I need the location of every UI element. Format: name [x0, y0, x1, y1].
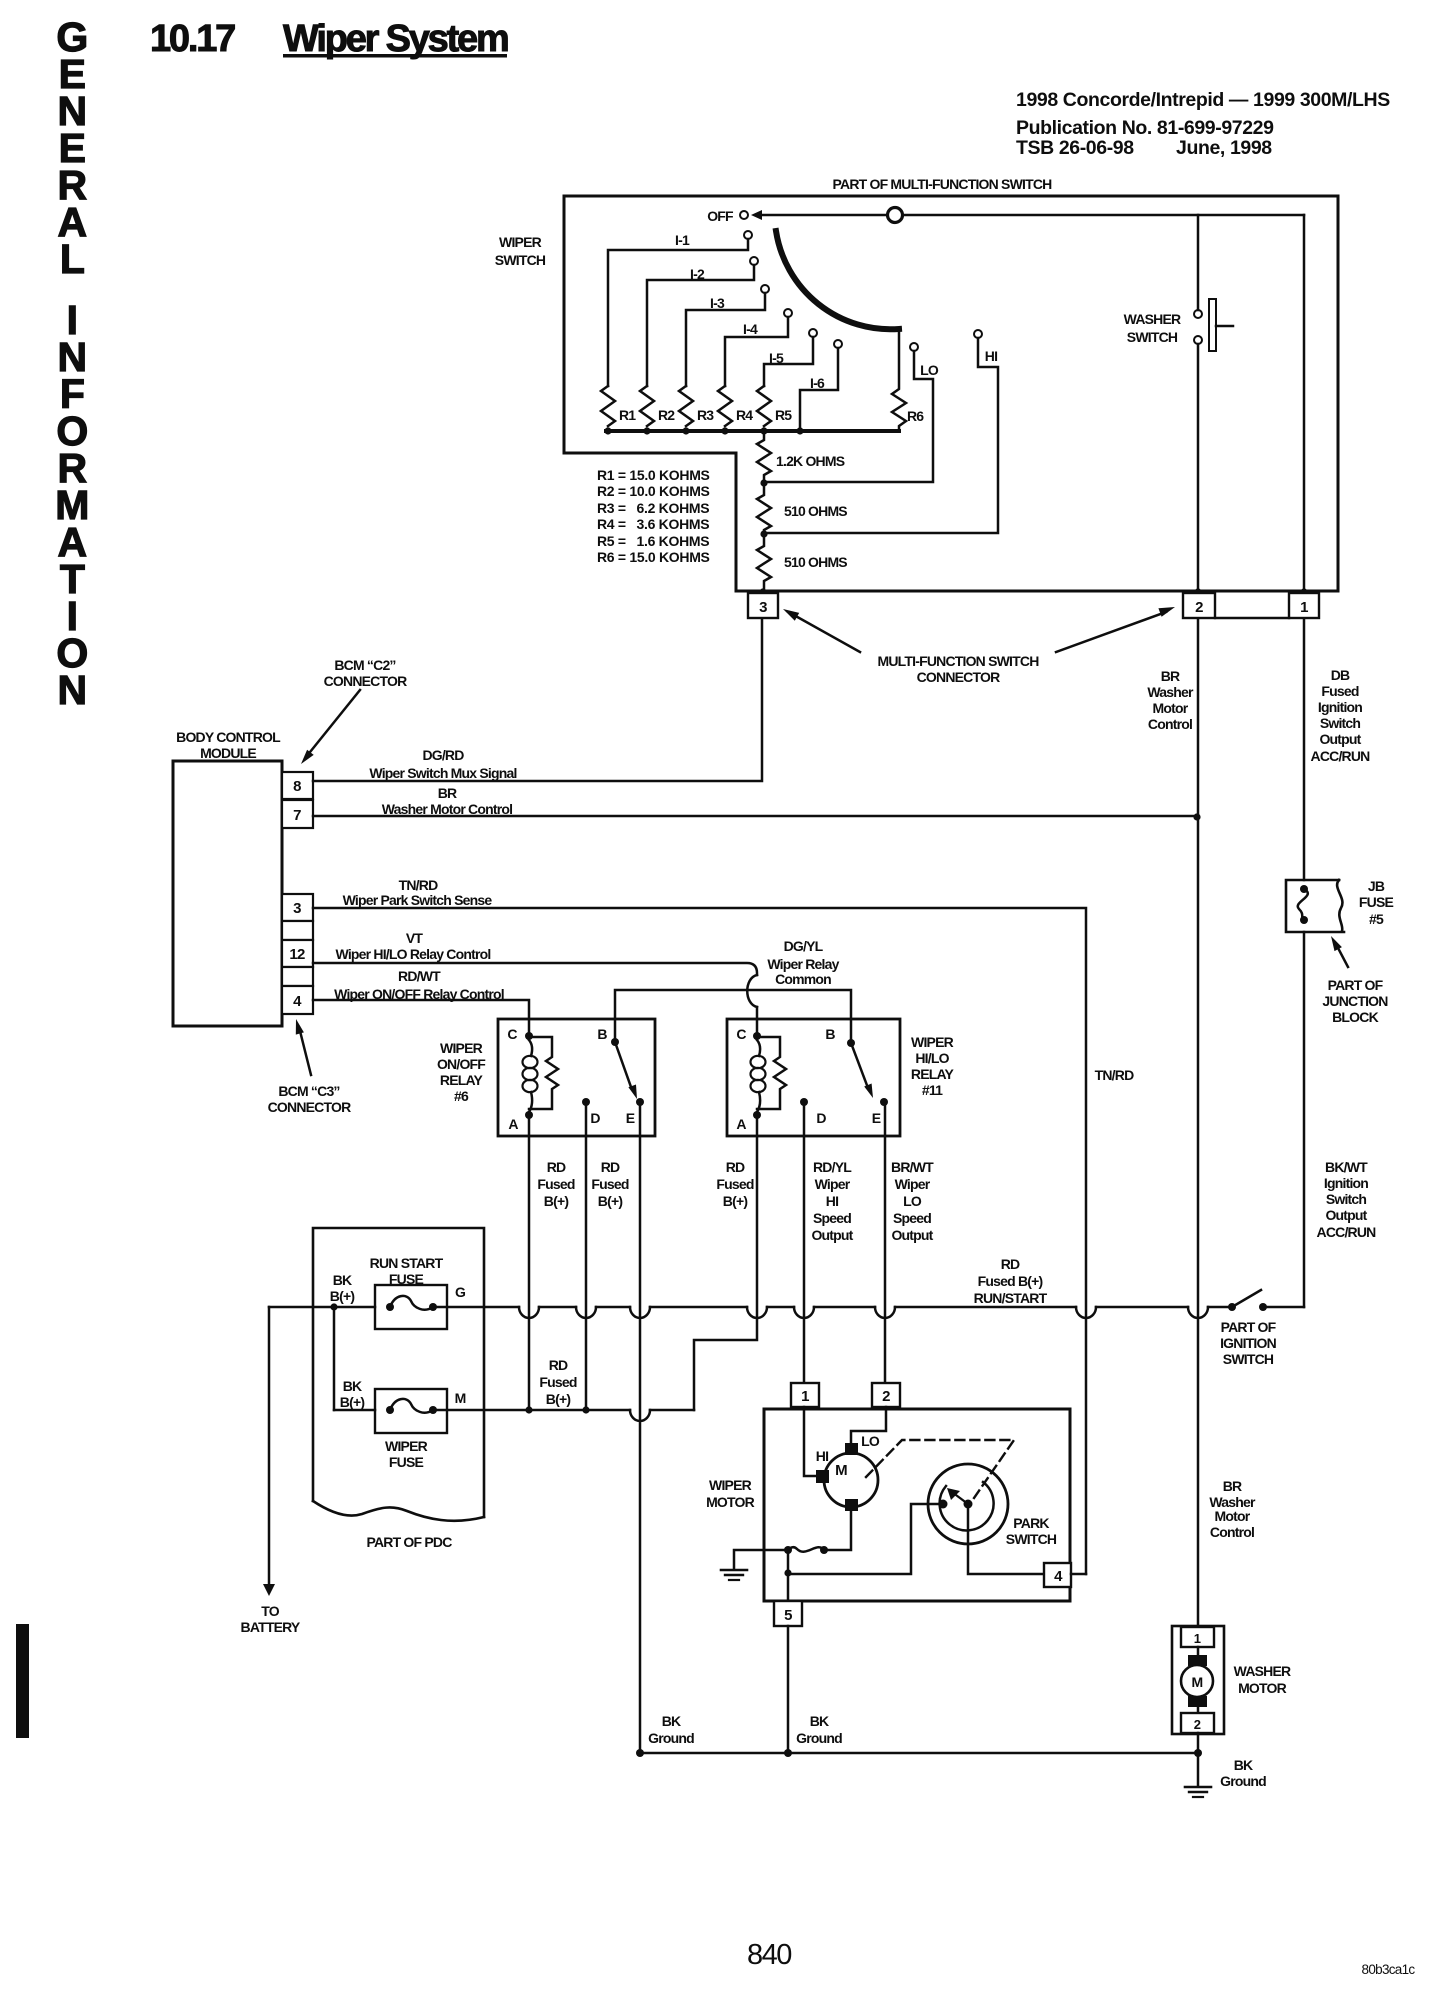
svg-text:Wiper ON/OFF Relay Control: Wiper ON/OFF Relay Control — [334, 986, 504, 1002]
svg-text:LO: LO — [920, 362, 939, 378]
wiper sweep arc — [776, 231, 899, 329]
svg-text:Fused: Fused — [539, 1374, 576, 1390]
svg-text:4: 4 — [293, 993, 302, 1010]
arrow BCM C2 to pin 8 — [301, 690, 360, 764]
svg-text:E: E — [872, 1110, 881, 1126]
relay 6 pin B — [597, 1026, 619, 1046]
relay 11 pin B — [825, 1026, 855, 1047]
svg-text:I-4: I-4 — [743, 321, 758, 337]
svg-text:A: A — [508, 1116, 518, 1132]
body control module box — [173, 761, 282, 1026]
svg-text:SWITCH: SWITCH — [1223, 1351, 1274, 1367]
svg-text:Common: Common — [775, 971, 831, 987]
sidebar black bar — [16, 1624, 29, 1738]
label JB FUSE #5 — [1359, 878, 1394, 927]
relay 6 pin E — [626, 1098, 644, 1126]
park switch circle — [928, 1464, 1008, 1544]
wire TN/RD Wiper Park Switch Sense — [313, 877, 1086, 1574]
connector pin 2 — [1183, 588, 1215, 618]
svg-text:DG/RD: DG/RD — [422, 747, 464, 763]
wire DG/YL Wiper Relay Common — [615, 938, 851, 1043]
wire pin1 vertical inside box — [1303, 215, 1306, 592]
wire ground bus — [636, 1749, 1202, 1757]
svg-text:RD: RD — [726, 1159, 745, 1175]
svg-text:HI: HI — [826, 1193, 838, 1209]
label PART OF IGNITION SWITCH — [1220, 1319, 1277, 1367]
pivot circle of wiper arm — [888, 208, 903, 223]
svg-text:Wiper Park Switch Sense: Wiper Park Switch Sense — [343, 892, 493, 908]
svg-text:Speed: Speed — [893, 1210, 931, 1226]
svg-text:BK: BK — [810, 1713, 829, 1729]
relay 11 pin A — [736, 1111, 761, 1132]
svg-text:B: B — [597, 1026, 607, 1042]
resistor R2 — [640, 386, 675, 426]
relay 11 pin D — [800, 1098, 826, 1126]
label BODY CONTROL MODULE — [176, 729, 281, 761]
wire battery feed to run start fuse — [269, 1303, 375, 1310]
svg-text:Wiper: Wiper — [815, 1176, 851, 1192]
svg-text:MOTOR: MOTOR — [1238, 1680, 1287, 1696]
svg-text:Output: Output — [1319, 731, 1361, 747]
svg-text:VT: VT — [406, 930, 424, 946]
label RD Fused B(+) RUN/START — [974, 1256, 1048, 1306]
BCM blank pin box — [282, 967, 313, 986]
ignition switch contacts — [1228, 1290, 1304, 1311]
label BCM C2 connector — [324, 657, 407, 689]
svg-text:OFF: OFF — [707, 208, 734, 224]
node HI tap junction — [760, 530, 767, 537]
svg-text:R5 = 1.6 KOHMS: R5 = 1.6 KOHMS — [597, 533, 709, 549]
resistor R6 — [892, 329, 924, 431]
relay 6 coil — [523, 1040, 538, 1112]
svg-text:BR: BR — [1161, 668, 1180, 684]
svg-text:840: 840 — [747, 1939, 791, 1971]
svg-text:BR: BR — [1223, 1478, 1242, 1494]
BCM pin 3 — [282, 894, 313, 921]
svg-text:M: M — [1192, 1674, 1203, 1690]
relay 6 pin A — [508, 1111, 533, 1132]
arrow to JB fuse — [1331, 936, 1348, 967]
wiper arm arrowhead at OFF — [751, 210, 762, 220]
svg-text:R3: R3 — [697, 407, 714, 423]
svg-text:E: E — [626, 1110, 635, 1126]
svg-text:ACC/RUN: ACC/RUN — [1317, 1224, 1377, 1240]
label PART OF JUNCTION BLOCK — [1322, 977, 1388, 1025]
svg-text:PART OF: PART OF — [1328, 977, 1384, 993]
contact I-3 — [686, 285, 769, 386]
svg-text:1: 1 — [1300, 599, 1308, 616]
svg-text:R6: R6 — [907, 408, 924, 424]
svg-text:HI: HI — [816, 1448, 828, 1464]
wire motor brush to internal ground node — [734, 1512, 851, 1568]
svg-text:R2 = 10.0 KOHMS: R2 = 10.0 KOHMS — [597, 483, 710, 499]
svg-text:RD/WT: RD/WT — [398, 968, 441, 984]
svg-text:FUSE: FUSE — [389, 1454, 424, 1470]
label WIPER FUSE — [385, 1438, 428, 1470]
label TO BATTERY — [241, 1603, 301, 1635]
svg-text:Wiper: Wiper — [895, 1176, 931, 1192]
svg-text:3: 3 — [293, 900, 301, 917]
resistor R1 — [601, 386, 636, 426]
svg-text:Wiper System: Wiper System — [283, 18, 508, 60]
svg-text:RD/YL: RD/YL — [813, 1159, 852, 1175]
wire into wiper fuse — [334, 1409, 375, 1412]
wire pivot to right edge — [903, 214, 1304, 217]
svg-text:FUSE: FUSE — [1359, 894, 1394, 910]
BCM pin 4 — [282, 986, 313, 1014]
svg-text:June, 1998: June, 1998 — [1176, 137, 1272, 159]
svg-text:BR: BR — [438, 785, 457, 801]
resistor 510 OHMS lower — [757, 534, 847, 592]
label WASHER MOTOR — [1234, 1663, 1291, 1696]
svg-text:BK: BK — [1234, 1757, 1253, 1773]
label DB Fused Ignition Switch Output ACC/RUN under pin 1 — [1311, 667, 1371, 764]
svg-text:N: N — [58, 667, 87, 713]
svg-text:R4: R4 — [736, 407, 753, 423]
JB fuse element — [1298, 885, 1308, 924]
svg-text:A: A — [736, 1116, 746, 1132]
relay 6 pin D — [582, 1098, 600, 1126]
header publication text — [1016, 89, 1390, 159]
svg-text:RD: RD — [547, 1159, 566, 1175]
wire ground node to pin 5 — [787, 1550, 790, 1601]
svg-text:B(+): B(+) — [546, 1391, 571, 1407]
contact I-4 — [725, 309, 792, 386]
svg-text:1.2K OHMS: 1.2K OHMS — [776, 453, 845, 469]
svg-text:BCM “C2”: BCM “C2” — [334, 657, 395, 673]
label WIPER ON/OFF RELAY #6 — [437, 1040, 486, 1104]
svg-text:TSB 26-06-98: TSB 26-06-98 — [1016, 137, 1134, 159]
svg-text:Fused: Fused — [1321, 683, 1358, 699]
wire pivot line — [760, 214, 887, 217]
svg-text:SWITCH: SWITCH — [495, 252, 546, 268]
svg-text:2: 2 — [882, 1388, 890, 1405]
svg-text:JB: JB — [1368, 878, 1385, 894]
svg-text:3: 3 — [759, 599, 767, 616]
park switch contacts — [939, 1488, 973, 1509]
relay 6 pin C — [507, 1026, 533, 1042]
wire DB vertical to JB fuse — [1303, 619, 1306, 880]
svg-text:Ground: Ground — [1220, 1773, 1266, 1789]
label BK B(+) at run start fuse — [330, 1272, 355, 1304]
svg-text:IGNITION: IGNITION — [1220, 1335, 1277, 1351]
wiper motor pin 1 — [791, 1383, 819, 1407]
svg-text:4: 4 — [1054, 1568, 1063, 1585]
svg-text:#6: #6 — [454, 1088, 469, 1104]
contact I-6 — [800, 340, 842, 431]
svg-text:RD: RD — [1001, 1256, 1020, 1272]
wire BR Washer Motor Control — [313, 785, 1201, 821]
svg-text:Ground: Ground — [648, 1730, 694, 1746]
relay U6 wiper on/off relay box — [498, 1019, 655, 1136]
wire pin2 to LO brush — [851, 1407, 886, 1443]
svg-text:Output: Output — [811, 1227, 853, 1243]
wiper motor pin 2 — [872, 1383, 900, 1407]
svg-text:WIPER: WIPER — [385, 1438, 428, 1454]
wire park switch contact to ground node — [784, 1504, 943, 1577]
relay 11 coil parallel resistor — [757, 1037, 786, 1109]
svg-text:C: C — [736, 1026, 746, 1042]
label BK B(+) at wiper fuse — [340, 1378, 365, 1410]
wire relay6 A to wiper fuse bus — [528, 1115, 531, 1410]
svg-text:PART OF MULTI-FUNCTION SWITCH: PART OF MULTI-FUNCTION SWITCH — [833, 176, 1053, 192]
svg-text:RELAY: RELAY — [911, 1066, 955, 1082]
JB fuse box with torn edge — [1286, 880, 1344, 932]
wire DB below fuse — [1303, 932, 1306, 1307]
svg-text:1: 1 — [801, 1388, 809, 1405]
svg-text:BATTERY: BATTERY — [241, 1619, 301, 1635]
relay 11 pin C — [736, 1026, 761, 1042]
node LO tap junction — [760, 479, 767, 486]
svg-text:Motor: Motor — [1153, 700, 1189, 716]
svg-text:L: L — [60, 236, 84, 282]
label WASHER SWITCH — [1124, 311, 1181, 345]
label BR/WT Wiper LO Speed Output — [891, 1159, 934, 1243]
svg-text:TN/RD: TN/RD — [1095, 1067, 1134, 1083]
svg-text:CONNECTOR: CONNECTOR — [324, 673, 407, 689]
svg-text:Switch: Switch — [1326, 1191, 1367, 1207]
svg-text:Fused: Fused — [591, 1176, 628, 1192]
svg-text:WIPER: WIPER — [440, 1040, 483, 1056]
svg-text:B(+): B(+) — [544, 1193, 569, 1209]
svg-text:80b3ca1c: 80b3ca1c — [1362, 1962, 1416, 1977]
svg-text:Control: Control — [1210, 1524, 1254, 1540]
BCM pin 7 — [282, 800, 313, 828]
svg-text:BODY CONTROL: BODY CONTROL — [176, 729, 281, 745]
wiper motor armature — [816, 1443, 878, 1511]
resistor value list — [597, 467, 710, 565]
wire wiper fuse output bus — [433, 1406, 694, 1421]
svg-text:#11: #11 — [922, 1082, 943, 1098]
svg-text:WIPER: WIPER — [911, 1034, 954, 1050]
resistor 1.2K OHMS — [757, 431, 845, 483]
washer motor M2 outer case — [1172, 1626, 1224, 1734]
label BR Washer Motor Control right run — [1209, 1478, 1256, 1540]
svg-text:Output: Output — [1325, 1207, 1367, 1223]
wire relay11 A jog to wiper fuse bus — [694, 1115, 757, 1410]
label BK Ground middle — [796, 1713, 842, 1746]
label MULTI-FUNCTION SWITCH CONNECTOR — [877, 653, 1039, 685]
contact I-1 — [608, 231, 752, 386]
svg-text:JUNCTION: JUNCTION — [1322, 993, 1388, 1009]
svg-text:B(+): B(+) — [723, 1193, 748, 1209]
svg-text:I-3: I-3 — [710, 295, 725, 311]
svg-text:PART OF PDC: PART OF PDC — [366, 1534, 452, 1550]
svg-text:2: 2 — [1194, 1717, 1201, 1732]
wire BR washer motor control vertical run — [1197, 619, 1200, 1627]
svg-text:I-6: I-6 — [810, 375, 825, 391]
svg-text:R4 = 3.6 KOHMS: R4 = 3.6 KOHMS — [597, 516, 709, 532]
label BK/WT Ignition Switch Output ACC/RUN — [1317, 1159, 1377, 1240]
svg-text:Fused B(+): Fused B(+) — [978, 1273, 1043, 1289]
wire pin 4 to TN/RD — [1071, 1573, 1086, 1576]
fuse F1 run start fuse — [375, 1285, 447, 1329]
svg-text:C: C — [507, 1026, 517, 1042]
wiper motor M1 box — [764, 1409, 1070, 1601]
svg-text:BR/WT: BR/WT — [891, 1159, 934, 1175]
svg-text:D: D — [816, 1110, 826, 1126]
relay 6 coil parallel resistor — [529, 1037, 558, 1109]
svg-text:TN/RD: TN/RD — [399, 877, 438, 893]
svg-text:LO: LO — [903, 1193, 922, 1209]
wire VT Wiper HI/LO Relay Control — [313, 930, 757, 1036]
svg-text:7: 7 — [293, 807, 301, 824]
svg-text:R5: R5 — [775, 407, 792, 423]
wire RD fused B(+) RUN/START bus — [433, 1307, 1228, 1318]
washer switch contacts and wire — [1194, 215, 1202, 592]
svg-text:Washer Motor Control: Washer Motor Control — [382, 801, 512, 817]
label BK Ground right — [1220, 1757, 1266, 1789]
wire relay11 E to motor pin 2 — [884, 1102, 887, 1383]
svg-text:DB: DB — [1331, 667, 1350, 683]
label RD Fused B(+) under relay6 D — [591, 1159, 628, 1209]
connector pin 3 — [748, 588, 778, 618]
fuse F2 wiper fuse — [375, 1389, 447, 1433]
contact OFF — [740, 211, 748, 219]
label RD Fused B(+) under relay6 A — [537, 1159, 574, 1209]
svg-text:8: 8 — [293, 778, 301, 795]
svg-text:RD: RD — [601, 1159, 620, 1175]
wire pin1 to HI brush — [804, 1407, 816, 1476]
svg-text:TO: TO — [261, 1603, 279, 1619]
label RUN START FUSE — [370, 1255, 444, 1287]
wire relay6 E to ground bus — [639, 1102, 642, 1753]
svg-text:Fused: Fused — [716, 1176, 753, 1192]
label WIPER SWITCH — [495, 234, 546, 268]
label BR Washer Motor Control under pin 2 — [1147, 668, 1194, 732]
svg-text:M: M — [455, 1390, 466, 1406]
svg-text:Switch: Switch — [1320, 715, 1361, 731]
label RD Fused B(+) under relay11 A — [716, 1159, 753, 1209]
contact HI — [766, 330, 998, 533]
svg-text:PART OF: PART OF — [1221, 1319, 1277, 1335]
relay U11 wiper hi/lo relay box — [727, 1019, 900, 1136]
PDC box with torn bottom edge — [313, 1228, 484, 1521]
label RD Fused B(+) at wiper fuse bus — [539, 1357, 576, 1407]
contact I-5 — [764, 329, 817, 386]
svg-text:BK/WT: BK/WT — [1325, 1159, 1368, 1175]
svg-text:BK: BK — [333, 1272, 352, 1288]
svg-text:R6 = 15.0 KOHMS: R6 = 15.0 KOHMS — [597, 549, 710, 565]
wiper motor pin 4 — [1044, 1563, 1071, 1587]
svg-text:10.17: 10.17 — [150, 18, 235, 60]
svg-text:Wiper HI/LO Relay Control: Wiper HI/LO Relay Control — [336, 946, 491, 962]
svg-text:BK: BK — [662, 1713, 681, 1729]
wire BK B(+) branch down to wiper fuse — [333, 1307, 336, 1410]
svg-text:RUN START: RUN START — [370, 1255, 444, 1271]
svg-text:BCM “C3”: BCM “C3” — [278, 1083, 339, 1099]
connector pin 1 — [1289, 588, 1319, 618]
svg-text:MODULE: MODULE — [200, 745, 256, 761]
svg-text:ACC/RUN: ACC/RUN — [1311, 748, 1371, 764]
svg-text:CONNECTOR: CONNECTOR — [917, 669, 1000, 685]
svg-text:Speed: Speed — [813, 1210, 851, 1226]
wire RD/WT Wiper ON/OFF Relay Control — [313, 968, 529, 1036]
svg-text:Ignition: Ignition — [1324, 1175, 1368, 1191]
svg-text:Washer: Washer — [1147, 684, 1194, 700]
label PARK SWITCH — [1006, 1515, 1057, 1547]
arrow to pin 3 — [783, 609, 860, 652]
arrow BCM C3 to pin 4 — [296, 1019, 311, 1075]
svg-text:RELAY: RELAY — [440, 1072, 484, 1088]
relay 6 switch blade — [615, 1042, 637, 1099]
washer switch plate — [1209, 299, 1233, 351]
svg-text:BLOCK: BLOCK — [1332, 1009, 1378, 1025]
svg-text:12: 12 — [289, 946, 305, 963]
ground symbol motor case — [721, 1570, 747, 1580]
svg-text:B(+): B(+) — [340, 1394, 365, 1410]
svg-text:Control: Control — [1148, 716, 1192, 732]
svg-text:HI/LO: HI/LO — [915, 1050, 949, 1066]
svg-text:Ground: Ground — [796, 1730, 842, 1746]
svg-text:Fused: Fused — [537, 1176, 574, 1192]
svg-text:RD: RD — [549, 1357, 568, 1373]
wire relay6 D to wiper fuse bus — [585, 1102, 588, 1410]
BCM pin 12 — [282, 940, 313, 967]
svg-text:5: 5 — [784, 1607, 792, 1624]
wiper motor pin 5 — [774, 1601, 802, 1626]
washer motor pin 1 — [1181, 1627, 1214, 1647]
label WIPER MOTOR — [706, 1477, 755, 1510]
svg-text:BK: BK — [343, 1378, 362, 1394]
connector strip between pins 2 and 1 — [1215, 617, 1289, 620]
wire to battery with arrow — [263, 1307, 275, 1596]
svg-text:Output: Output — [891, 1227, 933, 1243]
svg-text:510 OHMS: 510 OHMS — [784, 554, 847, 570]
BCM pin 8 — [282, 772, 313, 799]
BCM blank pin box — [282, 921, 313, 940]
wire DG/RD Wiper Switch Mux Signal — [313, 619, 762, 781]
svg-text:510 OHMS: 510 OHMS — [784, 503, 847, 519]
svg-text:I-1: I-1 — [675, 232, 690, 248]
washer motor armature — [1181, 1647, 1213, 1713]
svg-text:WASHER: WASHER — [1124, 311, 1181, 327]
resistor R3 — [679, 386, 714, 426]
svg-text:Publication No. 81-699-97229: Publication No. 81-699-97229 — [1016, 117, 1274, 139]
page title 10.17 Wiper System — [150, 18, 508, 60]
svg-text:LO: LO — [861, 1433, 880, 1449]
wire resistor bottom bus — [606, 429, 899, 433]
svg-text:R1: R1 — [619, 407, 636, 423]
svg-text:SWITCH: SWITCH — [1127, 329, 1178, 345]
svg-text:HI: HI — [985, 348, 997, 364]
ground symbol main — [1185, 1753, 1211, 1797]
sidebar vertical text GENERAL INFORMATION — [55, 14, 88, 713]
washer motor pin 2 — [1181, 1713, 1214, 1733]
resistor R5 — [757, 386, 792, 426]
relay 11 pin E — [872, 1098, 888, 1126]
wire park switch common to pin 4 — [968, 1508, 1044, 1574]
svg-text:B(+): B(+) — [330, 1288, 355, 1304]
svg-text:R3 = 6.2 KOHMS: R3 = 6.2 KOHMS — [597, 500, 709, 516]
svg-text:MULTI-FUNCTION SWITCH: MULTI-FUNCTION SWITCH — [877, 653, 1039, 669]
svg-text:2: 2 — [1195, 599, 1203, 616]
svg-text:#5: #5 — [1369, 911, 1384, 927]
svg-text:M: M — [835, 1462, 847, 1479]
svg-text:G: G — [455, 1284, 466, 1300]
svg-text:Wiper Relay: Wiper Relay — [767, 956, 839, 972]
svg-text:DG/YL: DG/YL — [784, 938, 824, 954]
svg-text:B: B — [825, 1026, 835, 1042]
label BK Ground left — [648, 1713, 694, 1746]
wire relay11 D to motor pin 1 — [803, 1102, 806, 1383]
svg-text:WASHER: WASHER — [1234, 1663, 1291, 1679]
junction dots on bus — [604, 427, 803, 434]
resistor 510 OHMS upper — [757, 483, 847, 534]
multi-function switch box outline (notched) — [564, 196, 1338, 591]
arrow to pin 2 — [1056, 607, 1175, 652]
svg-text:CONNECTOR: CONNECTOR — [268, 1099, 351, 1115]
